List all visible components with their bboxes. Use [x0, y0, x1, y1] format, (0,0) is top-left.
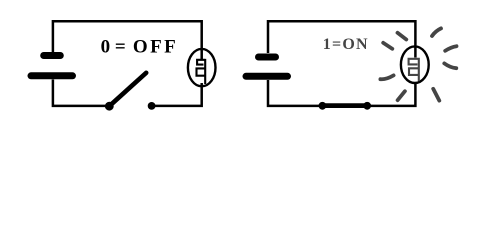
- wire: bottom wire from switch contact to lamp bottom: [155, 83, 202, 106]
- switch S1 contact dot: [148, 102, 156, 110]
- switch S2 left dot: [319, 102, 327, 110]
- ray left-lower: [380, 75, 393, 79]
- svg-text:1=ON: 1=ON: [323, 36, 369, 53]
- ray right-upper: [445, 46, 456, 51]
- wire: lower-left vertical + bottom wire to switch pivot: [53, 80, 106, 106]
- battery B1 short plate (top): [44, 52, 61, 59]
- switch S2 right dot: [363, 102, 371, 110]
- switch S2 closed bar: [324, 103, 366, 108]
- wire: lower-left vertical + bottom wire to switch left dot: [268, 80, 320, 106]
- wire: left vertical + top wire + right vertical into lamp top: [268, 21, 415, 57]
- ray bottom-left: [398, 91, 405, 100]
- svg-text:0: 0: [101, 37, 111, 58]
- wire: bottom wire from switch right dot to lamp bottom: [371, 82, 416, 106]
- ray bottom-right: [433, 89, 439, 101]
- lamp L1 filament (two square loops + stem): [197, 59, 206, 84]
- battery B2 short plate (top): [259, 54, 276, 61]
- wire: left vertical + top wire + right vertical into lamp top: [53, 21, 202, 59]
- svg-text:=: =: [115, 37, 126, 58]
- ray top-left: [398, 33, 407, 40]
- battery B1 long plate (bottom): [31, 72, 73, 79]
- switch S1 open arm: [110, 73, 146, 106]
- lamp L2 bulb outline: [401, 46, 429, 83]
- ray right-lower: [444, 63, 456, 68]
- battery B2 long plate (bottom): [246, 73, 288, 80]
- ray left-upper: [383, 43, 392, 49]
- lamp L2 filament (two square loops + stem, gray): [409, 58, 419, 81]
- lamp L1 bulb outline: [188, 49, 216, 86]
- svg-text:OFF: OFF: [133, 37, 178, 58]
- ray top-right: [432, 28, 441, 36]
- switch S1 pivot dot: [105, 102, 114, 111]
